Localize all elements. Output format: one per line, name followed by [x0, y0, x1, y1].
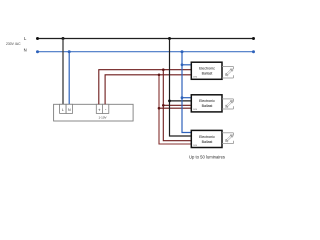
terminal - of controller [102, 104, 108, 113]
node - tap ballast 2 [158, 107, 161, 110]
wire control + riser from controller [99, 70, 191, 105]
node - trunk tap [158, 74, 161, 77]
svg-text:DIM: DIM [193, 145, 197, 147]
node L junction to controller [62, 37, 65, 40]
svg-text:DIM: DIM [193, 109, 197, 111]
svg-text:Ballast: Ballast [202, 104, 213, 108]
wire neutral trunk down right [182, 52, 191, 133]
wire - branch to ballast 2 [159, 107, 191, 109]
svg-text:230V /AC: 230V /AC [6, 42, 21, 46]
node L line right end [252, 37, 255, 40]
terminal N of controller [66, 104, 72, 113]
svg-text:N: N [24, 48, 27, 53]
svg-text:Electronic: Electronic [199, 135, 215, 139]
lamp LP2 circuit [222, 99, 234, 109]
node + trunk tap [162, 68, 165, 71]
lamp LP1 circuit [222, 67, 234, 79]
svg-text:N: N [68, 108, 71, 112]
wire control - riser from controller [105, 75, 191, 105]
lamp LP3 circuit [222, 133, 234, 144]
wire live branch to ballast 2 [170, 100, 191, 102]
svg-text:Electronic: Electronic [199, 67, 215, 71]
svg-text:Up to 50 luminaires: Up to 50 luminaires [189, 155, 225, 160]
wire neutral branch to ballast 2 [182, 97, 191, 99]
svg-text:Ballast: Ballast [202, 72, 213, 76]
node N junction to ballast trunk [181, 50, 184, 53]
svg-text:L: L [62, 108, 64, 112]
svg-text:1-10V: 1-10V [98, 116, 106, 120]
node N junction to controller [68, 50, 71, 53]
wire neutral drop to controller N terminal [68, 52, 70, 105]
terminal + of controller [96, 104, 102, 113]
wire + branch to ballast 2 [163, 104, 191, 106]
terminal L of controller [60, 104, 67, 113]
node + tap ballast 2 [162, 104, 165, 107]
wire L line (mains live) [37, 38, 254, 40]
controller U1 (1-10V control unit box) [54, 104, 134, 121]
ballast U2 (electronic ballast 1) [191, 62, 222, 79]
svg-text:Ballast: Ballast [202, 140, 213, 144]
svg-text:Electronic: Electronic [199, 99, 215, 103]
wire control + trunk down [163, 70, 191, 141]
ballast U4 (electronic ballast 3) [191, 130, 222, 147]
wire control - trunk down [159, 75, 191, 144]
node live tap ballast 2 [168, 100, 171, 103]
svg-text:+: + [98, 107, 101, 112]
wire neutral branch to ballast 1 [182, 64, 191, 66]
ballast U3 (electronic ballast 2) [191, 95, 222, 112]
node L line left end [36, 37, 39, 40]
wire N line (mains neutral) [37, 51, 254, 53]
wire live drop to controller L terminal [62, 39, 64, 105]
node neutral tap ballast 1 [181, 63, 184, 66]
wire live trunk down right [170, 39, 191, 137]
node neutral tap ballast 2 [181, 96, 184, 99]
node N line left end [36, 50, 39, 53]
svg-text:DIM: DIM [193, 77, 197, 79]
node L junction to ballast trunk [168, 37, 171, 40]
node N line right end [252, 50, 255, 53]
